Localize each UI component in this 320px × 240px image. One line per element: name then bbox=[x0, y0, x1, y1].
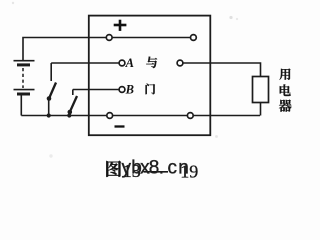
wire row A right to load bbox=[180, 63, 261, 77]
switch B pivot dot bbox=[68, 110, 73, 115]
switch A fixed contact wire bbox=[50, 63, 52, 81]
svg-text:ybx8.cn: ybx8.cn bbox=[122, 158, 189, 179]
minus symbol bbox=[115, 125, 125, 127]
load resistor (appliance) bbox=[253, 77, 269, 103]
wire bottom battery negative to load bbox=[21, 115, 260, 117]
plus symbol bbox=[114, 20, 127, 31]
label load char yong bbox=[279, 68, 290, 79]
label load char qi bbox=[279, 100, 292, 112]
svg-text:B: B bbox=[125, 83, 134, 97]
svg-text:A: A bbox=[125, 56, 134, 70]
terminal post B bbox=[119, 87, 125, 93]
terminal post output bbox=[177, 60, 183, 66]
terminal post row1 left bbox=[106, 35, 112, 41]
scan speck bbox=[229, 16, 232, 19]
caption dash bbox=[144, 171, 169, 173]
junction dot switch A bbox=[47, 113, 51, 117]
wire row A left bbox=[51, 62, 122, 64]
scan speck bbox=[236, 18, 238, 20]
battery cell2 long plate bbox=[14, 89, 35, 91]
junction dot switch B bbox=[67, 113, 71, 117]
wire load bottom bbox=[260, 103, 262, 116]
scan speck bbox=[12, 2, 14, 4]
label AND char yu bbox=[146, 57, 157, 68]
wire battery positive to row1 terminals bbox=[23, 38, 193, 61]
switch B bbox=[67, 90, 77, 118]
terminal post A bbox=[119, 60, 125, 66]
switch A bbox=[47, 63, 56, 118]
label gate char men bbox=[146, 84, 156, 95]
battery cell2 thick plate bbox=[17, 93, 30, 96]
wire row B left bbox=[73, 89, 122, 91]
battery cell1 thick plate bbox=[17, 63, 30, 66]
terminal post bottom left bbox=[107, 113, 113, 119]
gate box U1 bbox=[89, 16, 211, 136]
terminal post row1 right bbox=[191, 35, 197, 41]
wire battery negative lead bbox=[20, 96, 22, 116]
switch B lever bbox=[70, 96, 77, 112]
label caption char tu bbox=[106, 161, 121, 177]
switch A lever bbox=[49, 83, 56, 99]
label load char dian bbox=[280, 84, 291, 96]
switch B fixed contact wire bbox=[72, 90, 74, 96]
battery cell1 long plate bbox=[14, 60, 35, 62]
wire switch A pivot to bottom bbox=[48, 99, 50, 116]
scan speck bbox=[49, 154, 52, 157]
terminal post bottom right bbox=[187, 113, 193, 119]
switch A pivot dot bbox=[47, 96, 52, 101]
battery G1 bbox=[14, 61, 35, 116]
battery dashed link bbox=[22, 68, 24, 88]
scan speck bbox=[215, 135, 218, 138]
